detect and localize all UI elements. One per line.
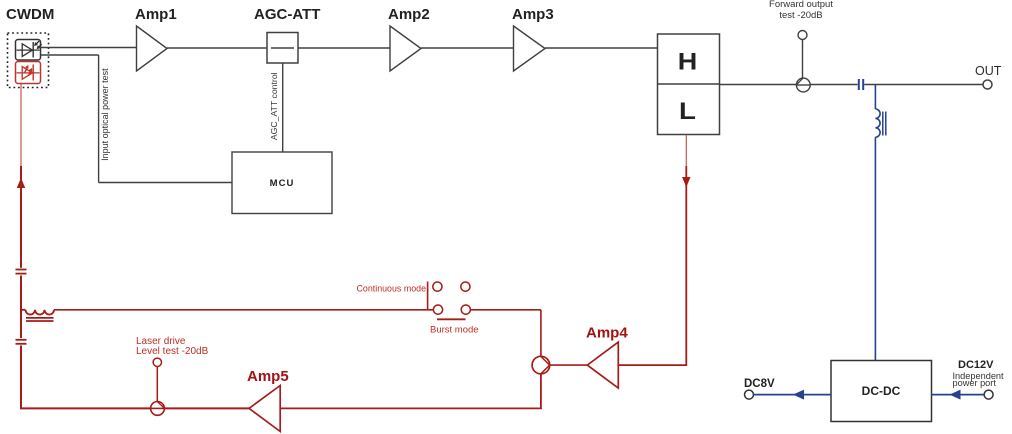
wire choke to mode switch (54, 309, 433, 311)
svg-text:Continuous mode: Continuous mode (357, 284, 427, 295)
wire Amp4 to HL drop (618, 364, 686, 366)
svg-text:H: H (678, 49, 698, 76)
svg-text:AGC-ATT: AGC-ATT (254, 6, 320, 23)
svg-text:OUT: OUT (975, 64, 1002, 78)
wire RX line thick (20, 166, 22, 268)
wire Amp2 to Amp3 (421, 47, 514, 49)
switch common stub (427, 282, 429, 310)
wire AGC_ATT control (282, 63, 284, 152)
laser diode D2 (transmitter) box (16, 62, 41, 84)
test port terminal (forward output) (798, 31, 807, 40)
DC-DC converter box (831, 361, 932, 422)
node bias tee junction (874, 85, 876, 110)
wire DC12V to DC-DC with arrow (932, 390, 985, 400)
svg-text:Burst mode: Burst mode (430, 325, 479, 336)
wire capacitor to OUT (864, 84, 983, 86)
wire HL box down (thin) (685, 135, 687, 166)
burst mode strap (437, 318, 466, 320)
svg-text:Amp4: Amp4 (586, 325, 628, 342)
wire choke to DC-DC (874, 137, 876, 360)
svg-text:CWDM: CWDM (6, 6, 54, 23)
wire cap to choke junction (20, 276, 22, 339)
switch contact continuous B (461, 282, 470, 291)
svg-text:Amp1: Amp1 (135, 6, 177, 23)
terminal DC8V (745, 390, 754, 399)
wire tap to Amp5 (164, 407, 249, 409)
svg-text:DC12V: DC12V (958, 359, 994, 371)
svg-text:Forward output: Forward output (769, 0, 833, 10)
wire switch to junction (470, 310, 541, 357)
svg-text:L: L (679, 98, 696, 125)
svg-text:test -20dB: test -20dB (779, 10, 822, 21)
svg-text:Amp2: Amp2 (388, 6, 430, 23)
wire test terminal to tap (156, 367, 158, 402)
switch contact burst A (433, 305, 442, 314)
junction coupler circle (532, 356, 550, 374)
svg-text:AGC_ATT control: AGC_ATT control (269, 72, 279, 140)
arrow up on RX line (17, 178, 25, 188)
wire cap to bottom rail (20, 346, 151, 409)
inductor L1 (bias choke, blue) (875, 109, 885, 137)
amplifier Amp3 (514, 26, 546, 71)
wire Amp5 to junction drop (280, 407, 542, 409)
wire Amp3 to HL box (545, 47, 658, 49)
capacitor C2 (red) (16, 270, 27, 274)
H/L driver box (658, 34, 720, 135)
switch contact continuous A (433, 282, 442, 291)
svg-text:DC8V: DC8V (744, 378, 775, 390)
svg-text:power port: power port (953, 378, 997, 388)
wire Amp1 to AGC-ATT (167, 47, 267, 49)
wire DC-DC to DC8V with arrow (754, 390, 832, 400)
MCU box (232, 152, 332, 214)
CWDM dotted module outline (8, 33, 49, 88)
svg-text:Amp5: Amp5 (247, 368, 289, 385)
attenuator AGC-ATT box (267, 33, 298, 64)
svg-text:Amp3: Amp3 (512, 6, 554, 23)
wire test port to tap (802, 40, 804, 79)
wire laser cathode down (thin) (20, 84, 22, 167)
test terminal laser drive (153, 358, 161, 366)
terminal OUT (983, 80, 992, 89)
wire CWDM monitor out (41, 55, 233, 183)
wire burst line thick (685, 166, 687, 366)
photodiode D1 (receiver) box (16, 40, 42, 61)
directional tap circle on output line (796, 78, 810, 92)
capacitor C1 (DC block, blue) (859, 79, 863, 90)
capacitor C3 (red) (16, 340, 27, 344)
svg-text:Level test -20dB: Level test -20dB (136, 346, 209, 357)
wire junction to Amp4 (550, 364, 588, 366)
svg-text:MCU: MCU (270, 178, 295, 189)
arrow down on burst line (682, 177, 690, 187)
svg-text:DC-DC: DC-DC (862, 384, 901, 398)
inductor L2 (red choke) (21, 310, 54, 321)
svg-text:Input optical power test: Input optical power test (100, 68, 110, 161)
amplifier Amp4 (left pointing) (587, 342, 618, 388)
bottom rail: laser tap circle (151, 402, 165, 416)
wire CWDM to Amp1 (41, 47, 137, 49)
terminal DC12V (984, 390, 993, 399)
amplifier Amp1 (137, 26, 168, 71)
amplifier Amp2 (390, 26, 421, 71)
wire HL box to forward tap (720, 84, 797, 86)
wire AGC-ATT to Amp2 (298, 47, 390, 49)
wire tap to capacitor (810, 84, 857, 86)
switch contact burst B (461, 305, 470, 314)
amplifier Amp5 (left pointing) (249, 386, 280, 432)
wire junction down to bottom rail (540, 374, 542, 409)
